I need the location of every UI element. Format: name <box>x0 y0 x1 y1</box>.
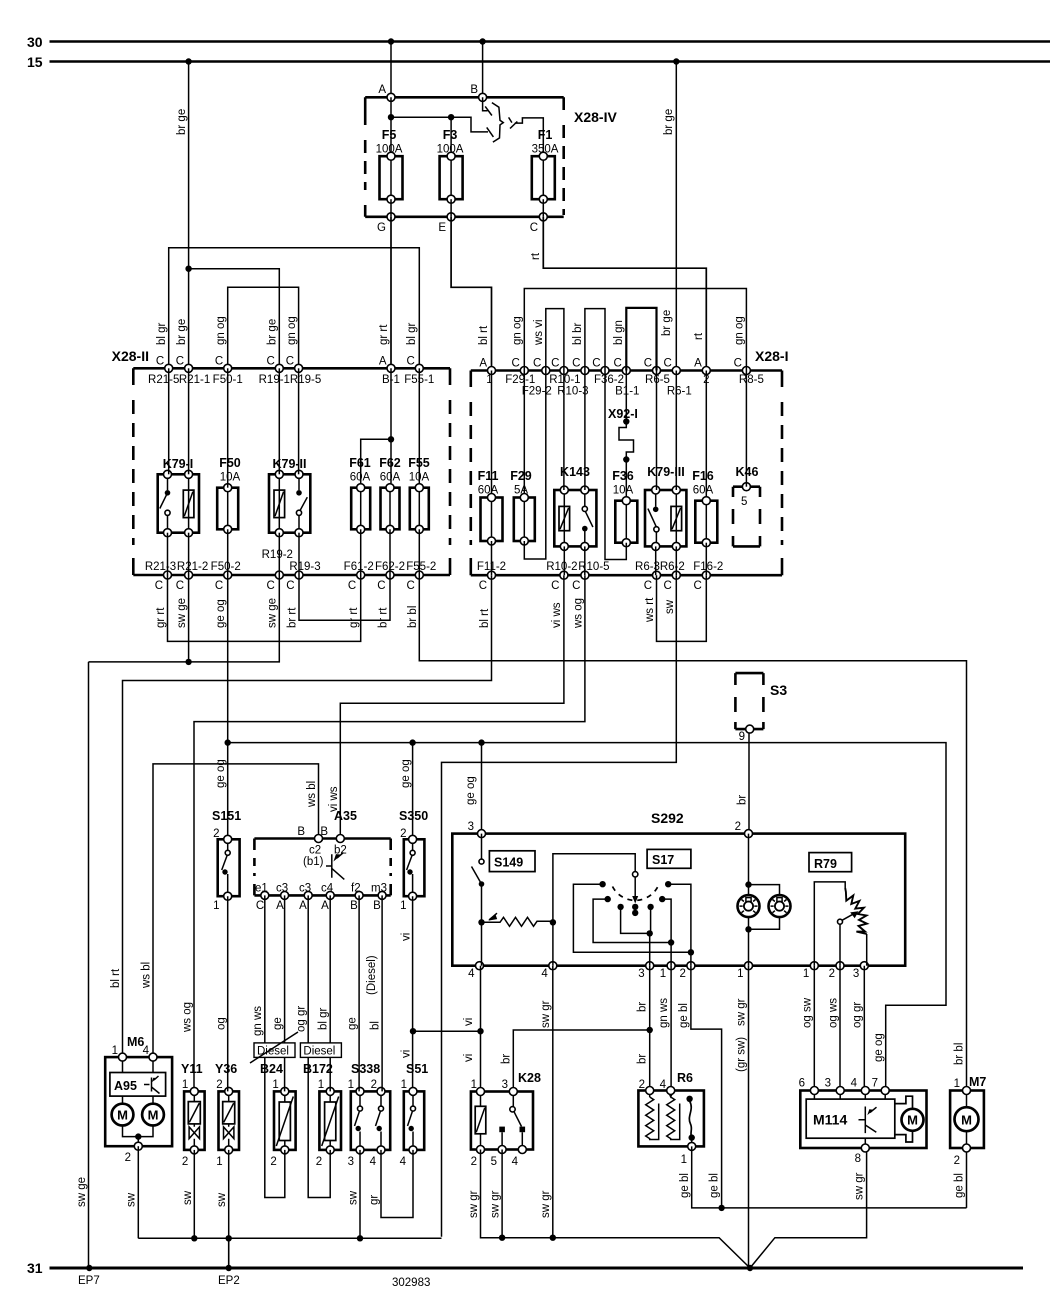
svg-text:S151: S151 <box>212 809 241 823</box>
svg-text:4: 4 <box>468 968 475 980</box>
svg-text:1: 1 <box>803 968 809 980</box>
svg-text:C: C <box>215 580 223 592</box>
svg-text:1: 1 <box>216 1156 222 1168</box>
fuse F16 <box>692 469 717 547</box>
wire R10-3 to K143 <box>584 371 586 491</box>
wire R21-5 to K79-I <box>168 368 170 474</box>
node on 30 for X28-IV B <box>479 38 485 44</box>
svg-text:2: 2 <box>270 1156 276 1168</box>
svg-text:vi: vi <box>463 1054 475 1062</box>
wire sw Y36-1 to EP2 <box>216 1150 229 1268</box>
svg-text:30: 30 <box>27 34 43 50</box>
X28-II terminal F50-1 <box>213 356 243 387</box>
svg-text:5: 5 <box>491 1156 497 1168</box>
X28-II terminal R19-3 <box>286 561 320 592</box>
wire R6-5 to K79-III <box>656 371 658 491</box>
svg-text:1: 1 <box>112 1045 118 1057</box>
connector X92-I <box>608 371 638 463</box>
svg-text:ge: ge <box>272 1017 284 1030</box>
fuse F3 <box>437 128 464 203</box>
wire 1 to F11 <box>491 371 493 494</box>
svg-text:3: 3 <box>853 968 859 980</box>
jumper bl br R10-3 to F36-2 <box>572 309 605 371</box>
svg-text:C: C <box>155 580 163 592</box>
svg-text:bl rt: bl rt <box>479 608 491 628</box>
svg-text:4: 4 <box>400 1156 407 1168</box>
svg-text:C: C <box>176 580 184 592</box>
wire br rt R19-3 to F62-2 <box>287 575 391 628</box>
switch S350 <box>399 809 428 912</box>
svg-text:1: 1 <box>272 1079 278 1091</box>
svg-text:R21-1: R21-1 <box>179 374 210 386</box>
terminal A <box>378 84 395 101</box>
wire gn og F50-1 to R19-5 <box>215 287 299 368</box>
svg-text:C: C <box>530 222 538 234</box>
X28-I terminal F29-1 <box>505 358 535 387</box>
svg-text:F29-1: F29-1 <box>505 374 535 386</box>
svg-text:4: 4 <box>370 1156 377 1168</box>
node on 30 for X28-IV A <box>388 38 394 44</box>
svg-text:2: 2 <box>735 821 741 833</box>
svg-text:F62: F62 <box>379 456 401 470</box>
node on 15 left br ge <box>185 58 191 64</box>
svg-text:ge bl: ge bl <box>709 1173 721 1198</box>
X28-II terminal R19-2 <box>262 549 293 592</box>
wire ws bl A35 c2 to M6-4 <box>141 764 319 1057</box>
X28-II terminal R21-3 <box>145 561 176 592</box>
wire Y11-2 to ground bus <box>182 1150 195 1238</box>
svg-text:og ws: og ws <box>828 998 840 1028</box>
svg-text:F50: F50 <box>219 456 241 470</box>
svg-text:(b1): (b1) <box>303 856 324 868</box>
sender S3 <box>735 673 787 743</box>
wire R6-1 to K79-III coil <box>675 371 677 491</box>
svg-text:sw gr: sw gr <box>490 1190 502 1218</box>
svg-text:c2: c2 <box>309 845 321 857</box>
wire K79-I to R21-3 <box>167 533 169 575</box>
svg-text:F36-2: F36-2 <box>594 374 624 386</box>
svg-text:(gr sw): (gr sw) <box>736 1037 748 1072</box>
svg-text:R21-3: R21-3 <box>145 561 176 573</box>
svg-text:C: C <box>266 356 274 368</box>
svg-text:3: 3 <box>638 968 644 980</box>
svg-text:10A: 10A <box>220 472 241 484</box>
X28-I terminal R6-5 <box>644 358 670 387</box>
svg-text:bl: bl <box>370 1021 382 1030</box>
relay K28 <box>471 1071 541 1168</box>
svg-text:br rt: br rt <box>378 607 390 628</box>
svg-text:ge og: ge og <box>215 599 227 628</box>
svg-text:F61: F61 <box>349 456 371 470</box>
wire S149 to S292 terminal 4 <box>481 922 483 965</box>
wire gn og F29-1 to R8-5 <box>512 289 747 371</box>
svg-text:og: og <box>216 1017 228 1030</box>
S292 terminal 1 bottom <box>803 962 818 980</box>
Diesel tag 1 with strike <box>250 1032 298 1063</box>
wire og sw S292 to M114-6 <box>802 966 815 1091</box>
svg-text:X28-IV: X28-IV <box>574 109 617 125</box>
wire K79-II coil to R19-2 <box>278 533 280 575</box>
svg-text:1: 1 <box>681 1154 687 1166</box>
fuse F36 <box>612 469 637 547</box>
wire X92-I to F36 <box>625 460 627 497</box>
svg-text:og sw: og sw <box>802 997 814 1028</box>
ground node 31 <box>747 1265 753 1271</box>
X28-I terminal F29-2 <box>522 358 552 398</box>
X28-II terminal R19-1 <box>259 356 290 387</box>
X28-I terminal 1 <box>479 358 495 387</box>
svg-text:1: 1 <box>737 968 743 980</box>
svg-text:gn ws: gn ws <box>252 1006 264 1036</box>
S292 terminal 3 bottom <box>638 962 653 980</box>
svg-text:sw ge: sw ge <box>76 1177 88 1207</box>
svg-text:A: A <box>276 900 284 912</box>
svg-text:M114: M114 <box>813 1112 847 1128</box>
solenoid valve Y11 <box>181 1062 205 1168</box>
X28-I terminal F11-2 <box>477 561 506 592</box>
svg-text:C: C <box>286 580 294 592</box>
svg-text:gr rt: gr rt <box>378 324 390 345</box>
svg-text:sw gr: sw gr <box>540 1190 552 1218</box>
svg-text:B: B <box>350 900 358 912</box>
svg-text:6: 6 <box>799 1078 805 1090</box>
svg-text:2: 2 <box>182 1156 188 1168</box>
fuse F1 <box>532 128 559 203</box>
wire K79-III coil to R6-2 <box>675 546 677 575</box>
svg-text:ge og: ge og <box>465 776 477 805</box>
wire sw gr S292-4b down <box>540 966 553 1238</box>
relay K79-I <box>158 457 199 537</box>
svg-text:sw: sw <box>126 1192 138 1207</box>
wire ws rt R6-3 to F16-2 <box>644 575 706 641</box>
wire F62 to F62-2 <box>389 529 391 575</box>
svg-text:gn ws: gn ws <box>658 998 670 1028</box>
S292 terminal 2 bottom <box>829 962 844 980</box>
svg-text:C: C <box>266 580 274 592</box>
svg-text:bl gr: bl gr <box>156 322 168 345</box>
S292 terminal 1 bottom <box>660 962 675 980</box>
svg-text:ws vi: ws vi <box>533 319 545 346</box>
svg-text:1: 1 <box>182 1079 188 1091</box>
switch S338 <box>348 1062 391 1168</box>
svg-text:br: br <box>637 1002 649 1012</box>
control unit A35 <box>254 809 390 912</box>
svg-text:gn og: gn og <box>734 316 746 345</box>
fuse F61 <box>349 456 371 533</box>
bus 31 <box>27 1260 1023 1276</box>
wire F3 to box bottom <box>450 199 452 217</box>
svg-text:S3: S3 <box>770 682 787 698</box>
connector plate X28-II <box>112 348 450 575</box>
svg-text:sw: sw <box>664 599 676 614</box>
svg-text:1: 1 <box>213 900 219 912</box>
svg-text:C: C <box>377 580 385 592</box>
motor M7 <box>950 1075 986 1167</box>
wire og gr S292 to M114-4 <box>852 966 866 1091</box>
svg-text:2: 2 <box>316 1156 322 1168</box>
svg-text:gr rt: gr rt <box>348 607 360 628</box>
node on 15 right br ge <box>673 58 679 64</box>
svg-text:2: 2 <box>125 1152 131 1164</box>
svg-text:R10-1: R10-1 <box>549 374 580 386</box>
svg-text:F1: F1 <box>538 128 553 142</box>
X28-II terminal R19-5 <box>286 356 321 387</box>
wire og ws S292 to M114-3 <box>828 966 841 1091</box>
svg-text:og gr: og gr <box>296 1006 308 1032</box>
wire gr rt R21-3 to F61-2 <box>155 575 361 641</box>
svg-text:S17: S17 <box>652 853 674 867</box>
svg-text:B: B <box>373 900 381 912</box>
svg-text:R6-1: R6-1 <box>667 386 692 398</box>
switch S17 <box>553 849 694 965</box>
svg-text:EP2: EP2 <box>218 1275 240 1287</box>
wire 2 to F16 <box>705 371 707 497</box>
svg-text:ge og: ge og <box>215 759 227 788</box>
svg-text:rt: rt <box>693 332 705 340</box>
terminal C <box>530 213 548 234</box>
relay socket K46 <box>733 465 760 546</box>
S292 terminal 3 top <box>468 821 486 838</box>
svg-text:sw ge: sw ge <box>176 598 188 628</box>
svg-text:gr: gr <box>369 1195 381 1205</box>
ground EP7 <box>78 1265 100 1287</box>
svg-text:2: 2 <box>216 1079 222 1091</box>
svg-text:EP7: EP7 <box>78 1275 100 1287</box>
wire sw ge R21-2 R19-2 to ground EP7 <box>76 575 279 1268</box>
svg-text:K79-II: K79-II <box>272 457 306 471</box>
svg-text:br ge: br ge <box>661 310 673 336</box>
X28-I terminal F16-2 <box>693 561 723 592</box>
X28-I terminal R10-5 <box>572 561 609 592</box>
svg-text:bl gn: bl gn <box>613 320 625 345</box>
wire bl gr R21-5 to F55-1 <box>156 248 419 369</box>
terminal G <box>377 213 395 234</box>
svg-text:B1-1: B1-1 <box>615 386 639 398</box>
svg-text:C: C <box>533 358 541 370</box>
S292 terminal 4 bottom <box>541 962 556 980</box>
X28-I terminal R10-1 <box>549 358 580 387</box>
svg-text:ge bl: ge bl <box>679 1173 691 1198</box>
svg-text:Y11: Y11 <box>181 1062 203 1076</box>
svg-text:3: 3 <box>348 1156 354 1168</box>
wire bl rt E to terminal 1 <box>451 217 491 371</box>
wire ge og net F50-2 S151 S350 S292-3 M114-7 <box>215 739 946 1086</box>
wire F29-1 to F29 <box>523 371 525 494</box>
svg-text:sw: sw <box>216 1192 228 1207</box>
svg-text:C: C <box>693 580 701 592</box>
svg-text:M: M <box>961 1112 972 1127</box>
svg-text:B: B <box>297 826 305 838</box>
svg-text:F50-2: F50-2 <box>211 561 241 573</box>
connector plate X28-I <box>471 348 789 575</box>
wire br net S292-3 R6-2 K28-3 <box>501 966 653 1092</box>
fuse F5 <box>376 128 403 203</box>
fuse F55 <box>408 456 430 533</box>
wire R19-5 to K79-II <box>298 368 300 474</box>
svg-text:S292: S292 <box>651 810 684 826</box>
wire K79-III to R6-3 <box>655 546 657 575</box>
terminal B <box>470 84 486 101</box>
wire vi ws R10-2 to A35 b2 <box>328 575 564 838</box>
svg-text:F55-2: F55-2 <box>406 561 436 573</box>
wire bl gr A35 c4 to B172-1 <box>318 895 331 1091</box>
svg-text:ge: ge <box>347 1017 359 1030</box>
X28-I terminal R8-5 <box>734 358 764 387</box>
svg-text:F3: F3 <box>443 128 458 142</box>
svg-text:B: B <box>470 84 478 96</box>
svg-text:C: C <box>215 356 223 368</box>
svg-text:C: C <box>256 900 264 912</box>
svg-text:C: C <box>644 580 652 592</box>
svg-text:sw gr: sw gr <box>540 1000 552 1028</box>
svg-text:10A: 10A <box>613 485 634 497</box>
wire gn ws A35 e1 to B24-2 <box>252 895 285 1197</box>
svg-text:100A: 100A <box>376 144 403 156</box>
blower unit M114 <box>799 1078 927 1166</box>
svg-text:3: 3 <box>468 821 474 833</box>
wire gr rt G to B-1 <box>378 217 391 368</box>
svg-text:vi: vi <box>401 1050 413 1058</box>
svg-text:F29-2: F29-2 <box>522 386 552 398</box>
svg-text:4: 4 <box>512 1156 519 1168</box>
svg-text:br ge: br ge <box>267 319 279 345</box>
wire sw gr K28-2 K28-5 to ground V <box>468 1150 750 1269</box>
svg-text:br ge: br ge <box>176 109 188 135</box>
wire F16 to F16-2 <box>705 543 707 576</box>
wire ge og F50-2 down <box>215 575 228 743</box>
wire sw gr S292-1b to ground <box>736 966 749 1268</box>
svg-text:C: C <box>406 580 414 592</box>
svg-text:R19-2: R19-2 <box>262 549 293 561</box>
wire K79-I coil to R21-2 <box>188 533 190 575</box>
svg-text:ws og: ws og <box>573 598 585 629</box>
wire br ge from 15 to R21-1 and R19-1 <box>176 62 279 369</box>
X28-II terminal F55-1 <box>404 356 434 387</box>
X28-II terminal F62-2 <box>375 561 405 592</box>
svg-text:F36: F36 <box>612 469 634 483</box>
svg-text:R6-2: R6-2 <box>660 561 685 573</box>
svg-text:15: 15 <box>27 54 43 70</box>
S292 terminal 4 bottom <box>468 962 483 980</box>
svg-text:(Diesel): (Diesel) <box>366 955 378 995</box>
svg-text:F61-2: F61-2 <box>344 561 374 573</box>
wire br bl F55-2 to M7-1 <box>407 575 967 1087</box>
relay K143 <box>554 465 596 550</box>
wire R8-5 to K46 <box>745 371 747 487</box>
svg-text:C: C <box>551 358 559 370</box>
X28-I terminal R6-2 <box>660 561 685 592</box>
svg-text:bl rt: bl rt <box>110 968 122 988</box>
svg-text:ws rt: ws rt <box>644 597 656 623</box>
breaker switch between B and F1 <box>483 97 544 152</box>
svg-text:K28: K28 <box>518 1071 541 1085</box>
svg-text:X28-I: X28-I <box>755 348 788 364</box>
svg-text:bl gr: bl gr <box>406 322 418 345</box>
S292 terminal 2 top <box>735 821 753 838</box>
svg-text:1: 1 <box>401 1079 407 1091</box>
sensor B24 <box>260 1062 296 1168</box>
wire F29 out to F29-2 <box>524 371 546 560</box>
X28-I terminal R6-3 <box>635 561 660 592</box>
Diesel tag 2 <box>300 1043 341 1058</box>
svg-text:M: M <box>907 1113 918 1128</box>
svg-text:br: br <box>737 795 749 805</box>
solenoid valve Y36 <box>215 1062 239 1168</box>
svg-text:100A: 100A <box>437 144 464 156</box>
svg-text:R6-5: R6-5 <box>645 374 670 386</box>
svg-text:A: A <box>379 356 387 368</box>
S292 terminal 2 bottom <box>679 962 694 980</box>
X28-I terminal R10-3 <box>557 358 589 398</box>
svg-text:3: 3 <box>502 1079 508 1091</box>
wire B-1 to F61 and F62 <box>361 368 394 483</box>
svg-text:br: br <box>637 1054 649 1064</box>
X28-II terminal R21-1 <box>176 356 210 387</box>
svg-text:gn og: gn og <box>512 316 524 345</box>
wire F36 out to F36-2 <box>605 371 626 560</box>
wire 30 to A <box>390 42 392 98</box>
X28-I terminal F36-2 <box>592 358 624 387</box>
fuse F11 <box>478 469 503 545</box>
svg-text:1: 1 <box>660 968 666 980</box>
ground EP2 <box>218 1265 240 1287</box>
wire ge A35 f2 to S338-1 <box>347 895 360 1091</box>
wire bl A35 m3 to S338-2 <box>366 895 382 1091</box>
svg-text:ws og: ws og <box>182 1002 194 1033</box>
svg-text:C: C <box>572 358 580 370</box>
svg-text:60A: 60A <box>350 472 371 484</box>
relay K79-II <box>269 457 310 537</box>
svg-text:A: A <box>321 900 329 912</box>
svg-text:bl gr: bl gr <box>318 1007 330 1030</box>
wire K79-II to R19-3 <box>298 533 300 575</box>
svg-text:R21-5: R21-5 <box>148 374 179 386</box>
svg-text:Y36: Y36 <box>215 1062 237 1076</box>
svg-text:1: 1 <box>471 1079 477 1091</box>
svg-text:C: C <box>663 580 671 592</box>
connector plate X28-IV <box>365 97 617 217</box>
svg-text:M: M <box>117 1108 128 1123</box>
svg-text:F11: F11 <box>478 469 499 483</box>
terminal E <box>438 213 455 234</box>
svg-text:X28-II: X28-II <box>112 348 149 364</box>
svg-text:C: C <box>479 580 487 592</box>
svg-text:C: C <box>663 358 671 370</box>
wire ge A35 c3 to B24-1 <box>272 895 285 1091</box>
wire gr S338-4 to S51-4 <box>369 1150 414 1218</box>
svg-text:C: C <box>592 358 600 370</box>
fuse F50 <box>217 456 241 533</box>
svg-text:R79: R79 <box>814 857 837 871</box>
svg-text:2: 2 <box>954 1155 960 1167</box>
svg-text:A: A <box>694 358 702 370</box>
svg-text:C: C <box>286 356 294 368</box>
wire sw S338-3 to ground bus <box>348 1150 361 1237</box>
wire R19-1 to K79-II coil <box>278 368 280 474</box>
svg-text:br rt: br rt <box>287 607 299 628</box>
svg-text:C: C <box>176 356 184 368</box>
svg-text:350A: 350A <box>532 144 559 156</box>
svg-text:A35: A35 <box>334 809 357 823</box>
svg-text:R10-2: R10-2 <box>546 561 577 573</box>
X28-II terminal F61-2 <box>344 561 374 592</box>
svg-text:sw gr: sw gr <box>468 1190 480 1218</box>
glow resistor unit R6 <box>638 1071 704 1166</box>
svg-text:br ge: br ge <box>176 319 188 345</box>
X28-II terminal F50-2 <box>211 561 241 592</box>
svg-text:8: 8 <box>855 1153 861 1165</box>
svg-text:4: 4 <box>851 1078 858 1090</box>
